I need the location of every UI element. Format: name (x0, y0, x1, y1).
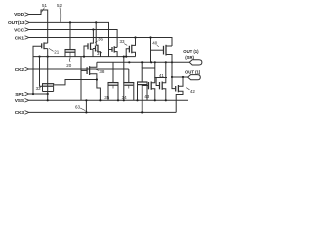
transistor T21 (33, 42, 48, 94)
label 37 (97, 51, 103, 56)
svg-text:OUT (1): OUT (1) (183, 49, 199, 54)
svg-text:CK1: CK1 (15, 35, 25, 41)
svg-text:43: 43 (144, 94, 150, 99)
svg-text:35: 35 (104, 95, 110, 100)
junction VSS-T41 (165, 99, 167, 101)
arrow CK2 (25, 67, 29, 71)
label OUT (1) (185, 70, 201, 75)
svg-text:37: 37 (97, 51, 103, 56)
svg-text:41: 41 (159, 73, 165, 78)
label 35 (104, 95, 110, 100)
wire T32 right leg step to T38 source (54, 80, 97, 85)
svg-text:42: 42 (190, 89, 196, 94)
junction SP1-T21 (32, 93, 34, 95)
label 32 (36, 86, 42, 91)
svg-text:20: 20 (66, 63, 72, 68)
junction SP1-T32 (47, 93, 49, 95)
junction VSS-Tx (154, 99, 156, 101)
wire OUT13 bus (29, 22, 108, 56)
transistor T32 (42, 84, 54, 92)
svg-text:40: 40 (152, 41, 158, 46)
svg-text:VDD: VDD (14, 12, 24, 18)
junction VCC-T36 (92, 28, 94, 30)
label 21 (54, 50, 60, 55)
wire T38 gate riser (80, 57, 82, 101)
junction CK3-63 (85, 111, 87, 113)
transistor T20 (65, 22, 76, 61)
junction B dots (128, 61, 130, 63)
svg-text:CK3: CK3 (15, 110, 25, 116)
wire OUT13 down x96 (95, 22, 97, 45)
label OUT(13 (8, 20, 25, 26)
label VCC (14, 27, 24, 33)
junction VSS-63 (85, 99, 87, 101)
wire CK2 line (29, 68, 129, 70)
transistor T39 rotated (left of T33) (109, 46, 118, 56)
wire T41 gate bar (154, 77, 167, 79)
junction OUT13-T36T37 (95, 21, 97, 23)
svg-text:33: 33 (120, 39, 126, 44)
output oval 2 wire (172, 76, 188, 78)
output terminal oval 1 (189, 60, 202, 65)
leader 51 (42, 8, 45, 13)
leader 21 (49, 48, 54, 51)
svg-text:OUT (1): OUT (1) (185, 70, 201, 75)
transistor T36 rotated (84, 30, 93, 57)
wire CK3 line (29, 111, 176, 113)
svg-text:36: 36 (98, 37, 104, 42)
leader 40 (157, 45, 159, 47)
label VDD (14, 12, 24, 18)
junction OUT13-T20 (69, 21, 71, 23)
arrow VDD (25, 13, 29, 17)
leader 32 (39, 86, 41, 87)
svg-text:SP1: SP1 (15, 92, 24, 98)
wire VDD with step (29, 10, 48, 43)
leader 63 (80, 108, 85, 111)
leader 36 (95, 41, 98, 43)
label CK3 (15, 110, 25, 116)
wire T21 right leg down to VSS (47, 49, 49, 101)
leader 33 (124, 44, 127, 46)
transistor T40 rotated (151, 45, 173, 77)
node line B (SR node) (97, 61, 189, 63)
junction oval2 wire dots (171, 76, 173, 78)
label 33 (120, 39, 126, 44)
transistor T37 rotated (93, 45, 101, 57)
label 41 (159, 73, 165, 78)
svg-text:32: 32 (36, 86, 42, 91)
junction CK3-T43gate (141, 111, 143, 113)
arrow CK1 (25, 36, 29, 40)
svg-text:VCC: VCC (14, 27, 24, 33)
svg-text:(SR): (SR) (185, 55, 194, 60)
arrow OUT13 (25, 21, 29, 25)
label 38 (99, 69, 105, 74)
arrow SP1 (25, 92, 29, 96)
junction VSS-T38 (99, 99, 101, 101)
svg-text:63: 63 (75, 104, 81, 109)
wire 63 stub (85, 100, 87, 112)
arrow CK3 (25, 111, 29, 115)
junction A-T33gate (125, 56, 127, 58)
wire T32 gate feed from line A (40, 57, 44, 87)
label 40 (152, 41, 158, 46)
transistor T43 (137, 68, 155, 112)
junction CK1-T33 (134, 36, 136, 38)
junction step-T38 (96, 78, 98, 80)
label 43 (144, 94, 150, 99)
svg-text:51: 51 (42, 3, 48, 8)
junction VSS-T32 (47, 99, 49, 101)
label CK1 (15, 35, 25, 41)
node line A (33, 56, 136, 58)
svg-text:CK2: CK2 (15, 67, 25, 73)
label 20 (66, 63, 72, 68)
junction A-T21 (47, 56, 49, 58)
junction VSS-T43 (136, 99, 138, 101)
junction VSS-T35 (117, 99, 119, 101)
wire T34 left leg to line A (123, 57, 125, 83)
svg-text:OUT(13: OUT(13 (8, 20, 25, 26)
wire VSS line (29, 99, 188, 101)
label 42 (190, 89, 196, 94)
transistor T42 rotated (172, 77, 183, 112)
transistor T41 rotated (156, 62, 166, 100)
svg-text:52: 52 (57, 3, 63, 8)
label 51 (42, 3, 48, 8)
transistor T35 (108, 62, 119, 100)
arrow VCC (25, 28, 29, 32)
junction A-T36gate (83, 56, 85, 58)
leader 52 (59, 8, 62, 22)
svg-text:34: 34 (122, 95, 128, 100)
leader 37 (97, 51, 98, 52)
svg-text:VSS: VSS (15, 98, 25, 104)
junction CK1-T40gate (149, 36, 151, 38)
svg-text:21: 21 (54, 50, 60, 55)
junction VSS-T34 (123, 99, 125, 101)
label CK2 (15, 67, 25, 73)
arrow VSS (25, 99, 29, 103)
label SP1 (15, 92, 24, 98)
transistor T34 (123, 69, 134, 100)
junction B-T43 (141, 61, 143, 63)
transistor T33 rotated (126, 38, 135, 57)
label 36 (98, 37, 104, 42)
transistor Tx rotated (142, 62, 155, 100)
leader 38 (96, 69, 99, 70)
label 63 (75, 104, 81, 109)
label VSS (15, 98, 25, 104)
leader 42 (186, 88, 189, 90)
svg-text:38: 38 (99, 69, 105, 74)
wire T43 drain riser (141, 62, 143, 68)
wire CK1 line (29, 38, 172, 47)
wire VCC line (29, 30, 117, 48)
label 34 (122, 95, 128, 100)
transistor T38 rotated (81, 62, 100, 100)
label 52 (57, 3, 63, 8)
wire SP1 line (29, 93, 48, 95)
junction A-T34 (123, 56, 125, 58)
wire T40 gate riser from CK1 (150, 38, 152, 63)
junction A-left (38, 56, 40, 58)
label OUT (1) (SR) (183, 49, 199, 60)
output terminal oval 2 (188, 75, 201, 80)
